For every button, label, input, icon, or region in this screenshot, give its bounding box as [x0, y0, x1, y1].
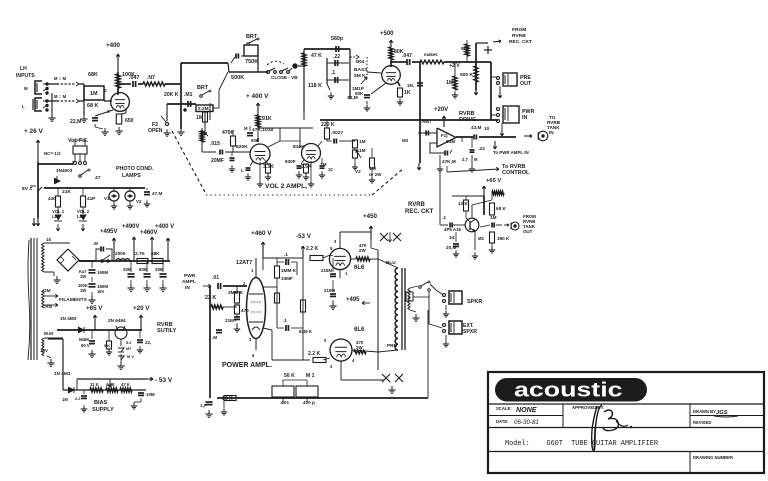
svg-text:PWR: PWR — [184, 273, 196, 279]
svg-text:.1: .1 — [284, 252, 288, 257]
svg-text:M :: M: M :: M — [54, 94, 67, 99]
svg-text:+500: +500 — [380, 31, 394, 37]
svg-text:FROM: FROM — [512, 27, 526, 33]
svg-text:5: 5 — [324, 338, 327, 343]
svg-text:20K K: 20K K — [164, 92, 179, 98]
svg-text:M 1: M 1 — [306, 373, 315, 379]
svg-text:makes: makes — [424, 52, 438, 57]
svg-text:INPUTS: INPUTS — [16, 73, 35, 79]
svg-text:LAMPS: LAMPS — [122, 173, 141, 179]
svg-text:M :: M: M :: M — [54, 76, 67, 81]
svg-text:M V: M V — [127, 354, 134, 359]
svg-text:1N 4M3: 1N 4M3 — [60, 316, 77, 321]
svg-text:SPKR: SPKR — [467, 299, 482, 305]
svg-text:4P5 A16: 4P5 A16 — [444, 227, 462, 232]
svg-text:390 K: 390 K — [497, 236, 510, 241]
svg-text:47 K: 47 K — [311, 53, 322, 59]
svg-text:.M: .M — [212, 335, 217, 340]
svg-text:.NN7: .NN7 — [421, 119, 432, 124]
svg-text:2: 2 — [104, 88, 107, 94]
svg-text:.N7: .N7 — [147, 75, 155, 81]
svg-text:REC. CKT: REC. CKT — [509, 39, 532, 45]
svg-text:500 K: 500 K — [460, 72, 473, 78]
svg-text:3: 3 — [330, 364, 333, 369]
svg-text:470: 470 — [241, 308, 249, 313]
svg-text:210M: 210M — [321, 268, 332, 273]
svg-text:47K,M: 47K,M — [442, 159, 456, 164]
svg-text:220 K: 220 K — [321, 122, 335, 128]
svg-text:VoL F.S.: VoL F.S. — [68, 138, 89, 144]
svg-text:1K: 1K — [404, 90, 411, 96]
svg-text:OUT: OUT — [523, 229, 533, 234]
svg-text:M4M: M4M — [79, 337, 89, 342]
svg-text:4.7K: 4.7K — [106, 382, 115, 387]
svg-text:2.2: 2.2 — [75, 396, 81, 401]
svg-text:12 K: 12 K — [458, 201, 468, 206]
svg-text:.1: .1 — [283, 318, 287, 323]
svg-text:30M: 30M — [123, 267, 132, 272]
svg-text:+65 V: +65 V — [486, 178, 501, 184]
svg-text:OPEN: OPEN — [148, 128, 163, 134]
svg-text:BRT: BRT — [197, 85, 209, 91]
svg-text:.22: .22 — [333, 54, 340, 60]
svg-text:750K: 750K — [245, 59, 258, 65]
svg-text:- 53 V: - 53 V — [155, 377, 173, 384]
svg-text:11 K: 11 K — [90, 382, 99, 387]
svg-text:+460V: +460V — [140, 230, 158, 236]
svg-text:2W: 2W — [356, 345, 363, 350]
svg-text:.0027: .0027 — [331, 130, 343, 136]
svg-text:.22: .22 — [478, 146, 485, 152]
svg-text:LED: LED — [52, 214, 60, 219]
svg-text:5: 5 — [330, 246, 333, 251]
svg-text:68 K: 68 K — [496, 206, 506, 211]
svg-text:+20 V: +20 V — [133, 305, 150, 312]
svg-text:POWER AMPL.: POWER AMPL. — [222, 362, 272, 369]
svg-text:1W: 1W — [80, 274, 86, 279]
svg-text:V1: V1 — [104, 196, 110, 201]
svg-text:560p: 560p — [331, 36, 344, 42]
svg-text:5.2: 5.2 — [126, 340, 132, 345]
svg-text:3.5K: 3.5K — [301, 164, 312, 170]
svg-text:21K: 21K — [62, 189, 71, 195]
svg-text:1N4003: 1N4003 — [56, 168, 73, 173]
svg-text:118 K: 118 K — [308, 83, 322, 89]
svg-text:43,M: 43,M — [471, 125, 481, 130]
svg-text:.01: .01 — [212, 275, 219, 281]
svg-text:LH: LH — [20, 66, 27, 72]
svg-text:NONE: NONE — [516, 406, 537, 414]
svg-text:BIAS: BIAS — [94, 400, 108, 406]
svg-text:BRT: BRT — [246, 34, 258, 40]
svg-text:820K: 820K — [236, 144, 248, 150]
svg-text:FILAMENTS: FILAMENTS — [59, 297, 88, 303]
svg-text:IN: IN — [185, 285, 190, 291]
svg-text:BLU: BLU — [386, 260, 396, 265]
svg-text:SUTILY: SUTILY — [157, 328, 177, 334]
svg-text:1N 4M3: 1N 4M3 — [54, 371, 71, 376]
svg-text:91K: 91K — [262, 116, 272, 122]
svg-text:V2: V2 — [136, 199, 142, 204]
svg-text:IN: IN — [522, 115, 527, 121]
svg-text:+490V: +490V — [122, 224, 140, 230]
svg-text:REVISED: REVISED — [693, 420, 711, 425]
svg-text:M: M — [474, 157, 478, 162]
svg-text:Model: G60T TUBE GUITAR AM: Model: G60T TUBE GUITAR AMPLIFIER — [505, 440, 658, 448]
svg-text:20,M: 20,M — [446, 245, 456, 250]
svg-text:3: 3 — [107, 109, 110, 115]
svg-text:.047: .047 — [129, 75, 140, 81]
svg-text:1M,: 1M, — [407, 83, 414, 88]
svg-text:22,: 22, — [145, 340, 151, 345]
svg-text:68 K: 68 K — [87, 103, 99, 109]
svg-text:16V: 16V — [97, 289, 105, 294]
svg-text:CONTROL: CONTROL — [502, 170, 530, 176]
svg-text:2.2 K: 2.2 K — [308, 351, 320, 357]
svg-text:34: 34 — [449, 235, 455, 240]
svg-text:06-30-81: 06-30-81 — [514, 419, 539, 426]
svg-text:1M: 1M — [90, 91, 98, 97]
svg-text:2.7K: 2.7K — [135, 251, 145, 256]
svg-text:5 K: 5 K — [104, 343, 110, 348]
svg-text:DATE:: DATE: — [496, 419, 509, 424]
svg-text:1: 1 — [251, 268, 254, 273]
svg-text:DRIVE: DRIVE — [459, 117, 476, 123]
svg-text:2W: 2W — [359, 248, 366, 253]
svg-text:-53 V: -53 V — [296, 233, 312, 240]
svg-text:IN: IN — [549, 130, 554, 135]
svg-text:M2: M2 — [478, 236, 485, 241]
svg-text:+ 400 V: + 400 V — [246, 93, 269, 100]
svg-text:10V: 10V — [40, 348, 48, 353]
svg-text:900: 900 — [461, 46, 469, 52]
svg-text:acoustic: acoustic — [514, 379, 623, 402]
svg-text:2000: 2000 — [115, 251, 126, 256]
svg-text:REC. CKT: REC. CKT — [405, 209, 434, 215]
svg-text:430: 430 — [48, 196, 56, 201]
svg-text:20MF: 20MF — [211, 158, 224, 164]
svg-text:.015: .015 — [210, 141, 220, 147]
svg-text:RVRB: RVRB — [408, 202, 426, 208]
svg-text:160M: 160M — [97, 270, 108, 275]
svg-text:47,M: 47,M — [152, 191, 162, 196]
svg-text:12AT7: 12AT7 — [236, 260, 252, 266]
svg-text:60 V: 60 V — [81, 343, 90, 348]
svg-text:1M: 1M — [62, 397, 68, 402]
svg-text:AMPL: AMPL — [182, 279, 196, 285]
svg-text:650: 650 — [125, 118, 134, 124]
svg-text:BASS: BASS — [354, 67, 368, 73]
svg-text:LED: LED — [77, 214, 85, 219]
svg-text:82M K: 82M K — [299, 329, 313, 334]
svg-text:6L6: 6L6 — [354, 265, 365, 271]
svg-text:OUT: OUT — [520, 81, 532, 87]
svg-text:10M: 10M — [146, 392, 155, 397]
svg-text:JGS: JGS — [716, 410, 728, 416]
svg-text:1M: 1M — [359, 139, 366, 144]
svg-text:+400 V: +400 V — [155, 224, 174, 230]
svg-text:+400: +400 — [106, 42, 121, 49]
svg-text:3: 3 — [249, 337, 252, 342]
svg-text:SUPPLY: SUPPLY — [92, 407, 114, 413]
svg-text:SCALE:: SCALE: — [496, 406, 512, 411]
svg-text:2.7: 2.7 — [462, 157, 469, 162]
svg-text:1: 1 — [345, 271, 348, 276]
svg-text:V2: V2 — [355, 169, 361, 174]
svg-text:+20V: +20V — [434, 107, 448, 113]
svg-text:4: 4 — [352, 358, 355, 363]
svg-text:.1: .1 — [442, 215, 446, 221]
svg-text:+65 V: +65 V — [86, 305, 103, 312]
svg-text:930F: 930F — [285, 159, 296, 164]
svg-text:DRAWING NUMBER: DRAWING NUMBER — [693, 455, 733, 460]
svg-text:33MF: 33MF — [281, 276, 293, 281]
svg-text:2.2 K: 2.2 K — [306, 246, 318, 252]
svg-text:.001: .001 — [280, 400, 289, 405]
svg-text:DRAWN BY: DRAWN BY — [693, 409, 716, 414]
svg-text:L: L — [22, 104, 25, 109]
svg-text:32,M: 32,M — [347, 95, 358, 101]
svg-text:L: L — [241, 168, 244, 173]
svg-text:68K: 68K — [88, 72, 98, 78]
svg-text:8V Z: 8V Z — [22, 186, 32, 192]
svg-text:+460 V: +460 V — [251, 230, 272, 237]
svg-text:+450: +450 — [363, 213, 378, 220]
svg-text:2.2M: 2.2M — [198, 106, 209, 112]
svg-text:470 p: 470 p — [303, 400, 315, 405]
svg-text:1W: 1W — [80, 288, 86, 293]
svg-text:M3: M3 — [402, 138, 409, 143]
svg-text:PRM: PRM — [387, 343, 397, 348]
svg-text:PHOTO COND.: PHOTO COND. — [116, 166, 154, 172]
svg-text:6L6: 6L6 — [354, 327, 365, 333]
svg-text:56 K: 56 K — [284, 373, 295, 379]
svg-text:210M: 210M — [324, 288, 335, 293]
svg-text:M: M — [244, 126, 248, 131]
svg-text:47 K: 47 K — [121, 382, 130, 387]
svg-text:22,M: 22,M — [70, 119, 81, 125]
svg-text:3: 3 — [334, 239, 337, 244]
svg-text:M04: M04 — [356, 59, 365, 64]
svg-text:.1: .1 — [331, 70, 335, 76]
svg-text:500K: 500K — [231, 75, 244, 81]
svg-text:SPXR: SPXR — [463, 329, 477, 335]
svg-text:+495V: +495V — [100, 229, 118, 235]
svg-text:2N 6494: 2N 6494 — [108, 318, 126, 323]
svg-text:30M: 30M — [155, 267, 164, 272]
svg-text:+495: +495 — [346, 297, 360, 303]
svg-text:1M: 1M — [359, 148, 366, 153]
svg-text:3.3K: 3.3K — [263, 164, 274, 170]
svg-text:1C: 1C — [328, 167, 333, 172]
svg-text:M7: M7 — [126, 346, 132, 351]
svg-text:10: 10 — [484, 126, 490, 131]
svg-text:80M: 80M — [139, 267, 148, 272]
svg-text:1M: 1M — [446, 80, 453, 86]
svg-text:M: M — [24, 86, 28, 91]
svg-text:NC=-1/2: NC=-1/2 — [44, 151, 61, 156]
svg-text:1M: 1M — [490, 215, 497, 220]
svg-text:1M: 1M — [196, 115, 203, 121]
svg-text:.047: .047 — [402, 53, 412, 59]
svg-text:To PWR AMPL IN: To PWR AMPL IN — [493, 150, 529, 155]
svg-text:47: 47 — [95, 175, 101, 181]
svg-text:1b: 1b — [46, 237, 51, 242]
svg-text:M.M: M.M — [44, 331, 53, 336]
svg-text:RVRB: RVRB — [512, 33, 526, 39]
svg-text:1MM K: 1MM K — [281, 268, 297, 273]
svg-text:E1M: E1M — [446, 139, 455, 144]
svg-text:or 2W: or 2W — [369, 172, 382, 177]
svg-text:CLOSE - VB: CLOSE - VB — [271, 75, 298, 80]
svg-text:+ 26 V: + 26 V — [24, 128, 43, 135]
svg-text:6: 6 — [252, 353, 255, 358]
svg-text:.M1: .M1 — [184, 92, 193, 98]
svg-text:.M: .M — [93, 241, 98, 246]
svg-text:41P: 41P — [87, 196, 95, 201]
svg-text:VOL 2 AMPL,: VOL 2 AMPL, — [265, 183, 307, 190]
svg-text:F1): F1) — [441, 133, 448, 138]
